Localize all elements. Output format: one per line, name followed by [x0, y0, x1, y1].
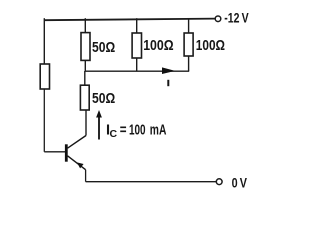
wire left drop from top rail [43, 18, 45, 64]
wire below first 50ohm [84, 60, 86, 71]
wire drop of first 50ohm [84, 18, 86, 32]
label Ic = 100 mA [106, 123, 167, 141]
wire left drop to base [43, 89, 45, 152]
svg-text:100Ω: 100Ω [196, 38, 225, 54]
resistor 100ohm (middle) [132, 33, 141, 58]
wire top rail [44, 19, 215, 21]
svg-text:100: 100 [129, 123, 146, 139]
wire collector vertical [85, 110, 87, 136]
wire below 100ohm middle [136, 58, 138, 71]
svg-text:mA: mA [150, 123, 167, 139]
svg-text:=: = [120, 123, 127, 139]
svg-text:50Ω: 50Ω [92, 40, 116, 56]
wire below 100ohm right [188, 56, 190, 71]
resistor R1 (unlabeled, base bias) [40, 64, 49, 89]
current arrow I [162, 67, 175, 74]
wire emitter vertical [85, 170, 87, 182]
svg-text:50Ω: 50Ω [92, 91, 116, 107]
resistor 50ohm (collector) [80, 85, 89, 110]
wire base [44, 151, 65, 153]
svg-text:100Ω: 100Ω [143, 38, 174, 54]
label I [167, 80, 169, 86]
wire junction to mid rail [84, 71, 86, 85]
terminal 0V [216, 179, 222, 185]
svg-text:-12 V: -12 V [224, 11, 248, 26]
resistor 100ohm (right) [184, 33, 193, 56]
current arrow Ic [96, 110, 102, 140]
wire mid rail [85, 70, 189, 72]
wire drop of 100ohm right [188, 18, 190, 33]
wire bottom rail [86, 181, 216, 183]
resistor 50ohm (first top) [81, 33, 90, 61]
transistor Q1 (PNP) [65, 136, 86, 170]
terminal -12V [215, 16, 221, 22]
svg-text:C: C [110, 128, 118, 140]
svg-text:0 V: 0 V [232, 174, 248, 190]
wire drop of 100ohm first [136, 18, 138, 33]
